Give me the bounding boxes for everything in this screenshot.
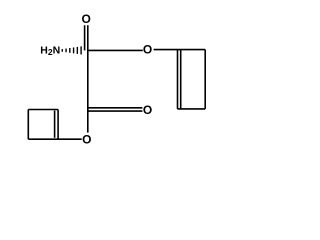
svg-text:O: O xyxy=(143,103,152,117)
svg-text:O: O xyxy=(82,12,91,26)
svg-text:O: O xyxy=(143,42,152,56)
svg-text:H2N: H2N xyxy=(40,45,60,58)
svg-text:O: O xyxy=(82,132,91,146)
